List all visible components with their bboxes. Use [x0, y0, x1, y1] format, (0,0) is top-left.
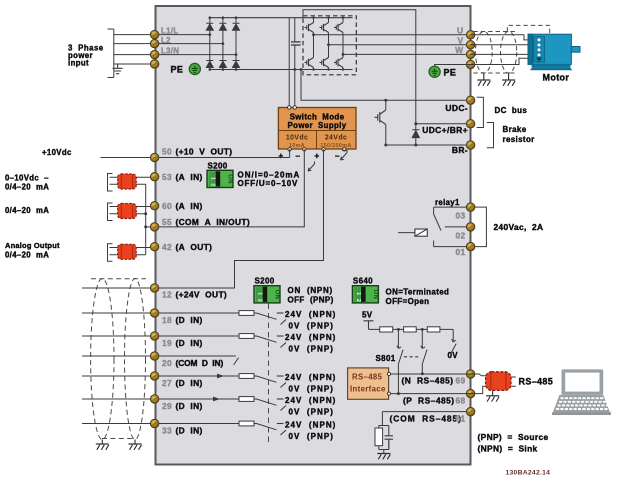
wire L2 input	[114, 43, 151, 45]
svg-text:(A OUT): (A OUT)	[176, 242, 213, 252]
wire V to motor	[470, 44, 536, 46]
svg-text:RS–485: RS–485	[352, 372, 383, 381]
wire 12 to SMPS	[159, 149, 324, 288]
RC termination network	[379, 412, 389, 436]
svg-text:0V (PNP): 0V (PNP)	[289, 408, 334, 417]
resistor 18	[239, 311, 254, 316]
svg-text:(D IN): (D IN)	[176, 315, 203, 325]
termination capacitor	[385, 436, 394, 450]
wire BR-	[386, 144, 471, 146]
SMPS pin +10V	[288, 148, 291, 151]
svg-text:18: 18	[162, 315, 172, 325]
wire U to motor	[470, 35, 536, 40]
terminal 29	[150, 395, 158, 403]
svg-text:(COM D IN): (COM D IN)	[176, 358, 224, 368]
terminal 68	[466, 389, 474, 397]
rectifier leg 2	[219, 16, 226, 70]
brake IGBT	[375, 99, 388, 147]
arrow pin2 config	[308, 162, 315, 172]
svg-text:S801: S801	[376, 354, 396, 363]
svg-text:01: 01	[456, 247, 466, 257]
svg-text:UDC+/BR+: UDC+/BR+	[422, 125, 468, 135]
terminal W	[466, 50, 474, 58]
shield dashed bottom	[102, 438, 135, 440]
svg-text:33: 33	[162, 425, 172, 435]
bead 1 wires	[110, 177, 151, 184]
motor shield ground 1	[477, 73, 490, 86]
S801 tap P	[397, 328, 403, 395]
shield ground stub 2	[134, 440, 136, 445]
DC bus- bottom	[210, 69, 353, 71]
wire 29 internal	[159, 398, 239, 400]
terminal 69	[466, 370, 474, 378]
shield dashed top	[91, 278, 146, 280]
svg-text:OFF/U=0–10V: OFF/U=0–10V	[238, 179, 299, 188]
label 60 (A IN)	[162, 201, 203, 211]
motor shield ground 2	[502, 73, 515, 86]
IGBT leg V	[320, 17, 330, 71]
DIP switch S200 analog	[207, 170, 233, 187]
svg-text:Motor: Motor	[543, 72, 570, 82]
wire U output	[312, 33, 470, 36]
motor	[528, 34, 580, 70]
bead 1 bracket	[108, 174, 113, 192]
option 24V/0V row 18	[277, 310, 337, 331]
svg-text:resistor: resistor	[503, 135, 535, 144]
terminal L3/N	[150, 50, 158, 58]
svg-text:5V: 5V	[362, 311, 373, 320]
resistor 19	[239, 334, 254, 339]
terminal 01	[466, 242, 474, 250]
svg-text:BR-: BR-	[452, 145, 468, 155]
svg-text:V: V	[457, 35, 463, 45]
label 42 (A OUT)	[162, 242, 212, 252]
svg-text:Brake: Brake	[503, 125, 527, 134]
terminal L2	[150, 39, 158, 47]
shield chassis ground 2	[129, 444, 142, 450]
relay contact wiring	[434, 207, 467, 247]
option 24V/0V row 27	[277, 373, 337, 394]
svg-text:0V: 0V	[448, 351, 459, 360]
PE symbol right	[429, 66, 440, 77]
wire 33 internal	[159, 423, 239, 425]
svg-text:Interface: Interface	[350, 385, 386, 394]
svg-text:S200: S200	[255, 276, 275, 285]
wire 55 COM to SMPS	[159, 149, 304, 227]
motor shield dashed top	[473, 31, 516, 33]
inverter dashed box	[303, 16, 356, 75]
wire L1 to rectifier	[159, 33, 211, 36]
wire 33 external	[82, 423, 150, 425]
svg-text:PE: PE	[444, 68, 457, 78]
brake diode	[412, 122, 419, 146]
resistor Rt1	[380, 327, 393, 332]
ferrite ground	[486, 390, 499, 401]
DC bus+ top	[210, 17, 353, 19]
svg-text:OFF (PNP): OFF (PNP)	[288, 296, 334, 305]
terminal UDC+/BR+	[466, 120, 474, 128]
svg-text:03: 03	[456, 211, 466, 221]
arrow marker 29	[213, 397, 220, 402]
label 19 (D IN)	[162, 338, 203, 348]
svg-text:+10Vdc: +10Vdc	[42, 148, 72, 157]
SMPS pin -10V	[303, 148, 306, 151]
motor cable shield ellipse 1	[475, 31, 492, 73]
svg-text:+: +	[279, 152, 284, 161]
termination resistor line	[369, 328, 454, 330]
svg-text:DC bus: DC bus	[495, 106, 528, 115]
option 24V/0V row 33	[277, 421, 337, 442]
interface pin P	[387, 392, 390, 395]
PE symbol left	[189, 63, 200, 74]
resistor 27	[239, 374, 254, 379]
svg-text:(A IN): (A IN)	[176, 201, 203, 211]
svg-text:0V (PNP): 0V (PNP)	[289, 345, 334, 354]
svg-text:Analog Output: Analog Output	[5, 241, 60, 250]
svg-text:240Vac, 2A: 240Vac, 2A	[494, 222, 544, 232]
svg-text:UDC-: UDC-	[445, 103, 468, 113]
svg-text:10Vdc: 10Vdc	[286, 135, 308, 142]
relay bracket	[475, 207, 487, 247]
DC link rail to SMPS	[288, 18, 290, 107]
SMPS pin +24V	[322, 148, 325, 151]
wire L3 input	[114, 54, 151, 56]
bead 3 bracket	[108, 244, 113, 261]
ferrite bead 3	[118, 244, 137, 259]
shield chassis ground 1	[96, 444, 109, 450]
shield ellipse 1	[91, 279, 114, 440]
svg-text:61: 61	[456, 414, 466, 424]
svg-text:(COM A IN/OUT): (COM A IN/OUT)	[176, 217, 250, 227]
resistor Rt3	[427, 327, 440, 332]
terminal U	[466, 31, 474, 39]
label 0-10Vdc / 0/4-20 mA	[5, 174, 49, 192]
motor cable shield ellipse 2	[501, 31, 517, 73]
svg-text:input: input	[68, 59, 89, 68]
svg-text:(P RS–485): (P RS–485)	[403, 395, 455, 405]
label Brake resistor	[503, 125, 535, 144]
terminal 20	[150, 352, 158, 360]
drive enclosure	[156, 6, 471, 465]
wire 20 internal	[159, 356, 239, 365]
svg-text:RS–485: RS–485	[519, 376, 554, 386]
label 3 Phase power input	[68, 44, 104, 68]
svg-text:(PNP) = Source: (PNP) = Source	[478, 432, 549, 442]
terminal 33	[150, 419, 158, 427]
svg-text:–: –	[296, 152, 301, 161]
shield ellipse 2	[125, 279, 146, 440]
label 27 (D IN)	[162, 378, 203, 388]
wire L3 to rectifier	[159, 53, 238, 56]
IGBT leg W	[334, 17, 344, 71]
bead 3 wires	[110, 248, 151, 255]
svg-text:0/4–20 mA: 0/4–20 mA	[5, 251, 49, 260]
svg-text:0/4–20 mA: 0/4–20 mA	[5, 206, 49, 215]
wire 18 external	[82, 312, 150, 314]
svg-text:ON (NPN): ON (NPN)	[288, 286, 333, 295]
arrow pin4 config	[341, 150, 348, 160]
DC bus bracket	[477, 97, 484, 127]
wire W output	[342, 53, 471, 56]
svg-text:(+10 V OUT): (+10 V OUT)	[176, 147, 233, 157]
arrow marker 27	[217, 374, 224, 379]
label 55 (COM A IN/OUT)	[162, 217, 250, 227]
terminal 27	[150, 372, 158, 380]
resistor 29	[239, 397, 254, 402]
RS-485 ferrite	[486, 372, 511, 391]
label (COM RS-485) 61	[390, 414, 466, 424]
svg-text:02: 02	[456, 230, 466, 240]
RC chassis ground	[377, 454, 390, 460]
wire 61	[382, 411, 466, 413]
wire W to motor	[470, 50, 536, 55]
interface pin N	[387, 372, 390, 375]
switch blade 29	[254, 399, 277, 405]
SMPS input pin a	[288, 106, 291, 109]
wire UDC+ routing	[303, 10, 470, 124]
svg-text:S200: S200	[208, 161, 228, 170]
label 53 (A IN)	[162, 172, 203, 182]
svg-text:42: 42	[162, 242, 172, 252]
svg-text:55: 55	[162, 217, 172, 227]
label 29 (D IN)	[162, 401, 203, 411]
svg-text:24V (NPN): 24V (NPN)	[285, 421, 336, 430]
svg-text:130BA242.14: 130BA242.14	[506, 470, 551, 477]
svg-text:(+24V OUT): (+24V OUT)	[176, 290, 228, 300]
svg-text:60: 60	[162, 201, 172, 211]
bead 2 wires	[110, 207, 151, 214]
motor shield dashed bottom	[473, 72, 514, 74]
svg-text:(A IN): (A IN)	[176, 172, 203, 182]
switch blade 27	[254, 376, 277, 382]
wire L1 input	[114, 34, 151, 36]
ferrite leads right	[511, 377, 516, 386]
S801 mech dashes	[404, 356, 419, 358]
label Analog Output / 0/4-20 mA	[5, 241, 60, 260]
svg-text:ON=Terminated: ON=Terminated	[386, 287, 450, 296]
option 24V/0V row 29	[277, 396, 337, 417]
label ON/I OFF/U	[238, 170, 301, 188]
wire V output	[327, 43, 470, 46]
wire PE to motor	[470, 58, 533, 64]
terminal 42	[150, 243, 158, 251]
svg-text:24V (NPN): 24V (NPN)	[285, 373, 336, 382]
svg-text:0V (PNP): 0V (PNP)	[289, 432, 334, 441]
terminal UDC-	[466, 96, 474, 104]
svg-text:0V (PNP): 0V (PNP)	[289, 385, 334, 394]
resistor Rt2	[404, 327, 417, 332]
svg-text:0–10Vdc –: 0–10Vdc –	[5, 174, 49, 183]
label ON=Terminated OFF=Open	[386, 287, 450, 306]
switch blade 18	[254, 313, 277, 319]
svg-text:W: W	[455, 45, 464, 55]
svg-text:(D IN): (D IN)	[176, 401, 203, 411]
svg-text:(N RS–485): (N RS–485)	[402, 376, 454, 386]
wire PE right	[435, 65, 471, 67]
svg-text:0V (PNP): 0V (PNP)	[289, 322, 334, 331]
svg-text:24V (NPN): 24V (NPN)	[285, 333, 336, 342]
svg-text:24Vdc: 24Vdc	[325, 135, 347, 142]
svg-text:68: 68	[456, 395, 466, 405]
relay coil	[398, 229, 427, 236]
terminal PE left	[150, 60, 158, 68]
terminal 12	[150, 284, 158, 292]
label ON (NPN) OFF (PNP)	[288, 286, 334, 305]
svg-text:–: –	[335, 152, 340, 161]
DIP switch S640	[352, 286, 378, 303]
svg-text:ON/I=0–20mA: ON/I=0–20mA	[238, 170, 301, 179]
svg-text:50: 50	[162, 147, 172, 157]
svg-text:Power Supply: Power Supply	[288, 121, 347, 130]
DC link capacitor	[291, 18, 301, 107]
svg-text:20: 20	[162, 358, 172, 368]
svg-text:(D IN): (D IN)	[176, 378, 203, 388]
label 50 (+10 V OUT)	[162, 147, 232, 157]
svg-text:(D IN): (D IN)	[176, 338, 203, 348]
terminal PE right	[466, 60, 474, 68]
terminal 53	[150, 173, 158, 181]
wire 27 internal	[159, 375, 239, 377]
ferrite bead 2	[118, 204, 137, 219]
svg-text:S640: S640	[353, 276, 373, 285]
svg-text:0/4–20 mA: 0/4–20 mA	[5, 183, 49, 192]
svg-text:U: U	[457, 25, 464, 35]
terminal 19	[150, 332, 158, 340]
terminal V	[466, 41, 474, 49]
terminal BR-	[466, 141, 474, 149]
RS-485 cable wire top	[467, 374, 487, 376]
wire 29 external	[82, 398, 150, 400]
label 33 (D IN)	[162, 425, 203, 435]
terminal 60	[150, 202, 158, 210]
svg-text:69: 69	[456, 376, 466, 386]
label 18 (D IN)	[162, 315, 203, 325]
label (N RS-485) 69	[402, 376, 466, 386]
svg-text:24V (NPN): 24V (NPN)	[285, 310, 336, 319]
IGBT leg U	[305, 17, 315, 71]
rectifier leg 3	[233, 16, 240, 70]
SMPS input pin b	[293, 106, 296, 109]
svg-text:OFF=Open: OFF=Open	[386, 297, 430, 306]
svg-text:+: +	[315, 152, 320, 161]
SMPS box	[278, 108, 356, 150]
RS-485 interface box	[348, 368, 389, 399]
wire 50 to SMPS	[101, 149, 290, 157]
0V switch	[451, 329, 456, 352]
svg-text:(NPN) = Sink: (NPN) = Sink	[478, 444, 538, 454]
5V rail symbol	[364, 321, 374, 330]
label (P RS-485) 68	[403, 395, 466, 405]
terminal 50	[150, 153, 158, 161]
wire 19 external	[82, 335, 150, 337]
rectifier leg 1	[206, 16, 213, 70]
wire 19 internal	[159, 335, 239, 337]
terminal 02	[466, 223, 474, 231]
terminal L1/L	[150, 30, 158, 38]
svg-text:27: 27	[162, 378, 172, 388]
svg-text:(COM RS–485): (COM RS–485)	[390, 414, 462, 424]
svg-text:29: 29	[162, 401, 172, 411]
wire UDC-	[300, 68, 471, 100]
wire 55 stub left	[146, 226, 151, 228]
3 phase input bracket	[108, 29, 114, 78]
laptop	[552, 369, 611, 415]
ferrite bead 1	[118, 174, 137, 189]
wire 18 internal	[159, 312, 239, 314]
RS-485 cable wire bottom	[467, 386, 487, 393]
shield ground stub 1	[101, 440, 103, 445]
termination resistor vertical	[375, 428, 383, 446]
svg-text:53: 53	[162, 172, 172, 182]
switch blade 33	[254, 424, 277, 430]
resistor 33	[239, 421, 254, 426]
terminal 03	[466, 203, 474, 211]
wire 20 external	[82, 355, 150, 357]
svg-text:(D IN): (D IN)	[176, 425, 203, 435]
wire 68	[391, 393, 467, 395]
wire 27 external	[82, 375, 150, 377]
wire 69	[391, 373, 467, 375]
wire 12 external	[82, 287, 150, 289]
svg-text:24V (NPN): 24V (NPN)	[285, 396, 336, 405]
terminal 18	[150, 309, 158, 317]
terminal 55	[150, 223, 158, 231]
brake resistor bracket	[487, 123, 494, 148]
terminal 61	[466, 407, 474, 415]
wire PE input	[114, 63, 151, 65]
COM drain vertical	[136, 184, 147, 255]
option 24V/0V row 19	[277, 333, 337, 354]
svg-text:PE: PE	[171, 65, 184, 75]
label 20 (COM D IN)	[162, 358, 223, 368]
RC bottom node	[379, 446, 389, 454]
svg-text:relay1: relay1	[435, 198, 460, 207]
SMPS pin -24V	[343, 148, 346, 151]
NPN/PNP dashed selector line	[268, 304, 270, 445]
wire L2 to rectifier	[159, 42, 225, 45]
bead 2 bracket	[108, 203, 113, 221]
svg-text:12: 12	[162, 290, 172, 300]
motor shield dashed link to frame	[507, 25, 549, 33]
S801 tap N	[421, 328, 427, 375]
label 12 (+24V OUT)	[162, 290, 227, 300]
earth symbol input	[113, 64, 123, 74]
switch blade 19	[254, 336, 277, 342]
DIP switch S200 digital	[254, 286, 280, 303]
svg-text:19: 19	[162, 338, 172, 348]
